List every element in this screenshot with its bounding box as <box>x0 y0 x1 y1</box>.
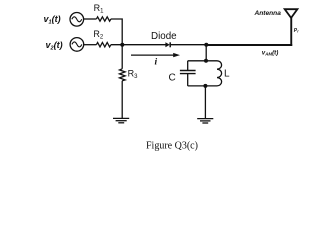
node D junction dot (tank bottom) <box>203 84 207 88</box>
wire node B down to tank top <box>205 45 207 61</box>
tank bottom wire <box>188 85 217 87</box>
antenna feed wire (node B to antenna) <box>205 44 292 46</box>
svg-text:v2(t): v2(t) <box>46 40 63 52</box>
tank top wire <box>188 60 217 62</box>
antenna mast (vertical) <box>290 17 292 47</box>
wire R1 to corner and down to node A <box>111 19 122 45</box>
svg-text:Figure Q3(c): Figure Q3(c) <box>146 140 198 151</box>
ground (right) <box>197 119 213 123</box>
resistor R2 <box>96 43 111 47</box>
svg-text:R3: R3 <box>128 69 139 81</box>
wire R2 to diode <box>111 44 166 46</box>
wire v1 to R1 <box>84 18 97 20</box>
source v1 (AC source circle) <box>70 12 84 26</box>
source v2 (AC source circle) <box>70 38 84 52</box>
wire v2 to R2 <box>84 44 97 46</box>
resistor R3 (vertical) <box>120 69 126 81</box>
antenna symbol <box>285 9 298 18</box>
wire node A down to R3 <box>121 45 123 69</box>
svg-text:v1(t): v1(t) <box>44 14 61 26</box>
svg-text:Pr: Pr <box>294 28 300 34</box>
wire R3 down to ground <box>121 81 123 119</box>
resistor R1 <box>96 17 111 21</box>
inductor L <box>217 61 222 86</box>
svg-text:R2: R2 <box>93 29 104 41</box>
ground (left) <box>113 118 129 122</box>
wire tank bottom to ground <box>204 86 206 119</box>
svg-text:i: i <box>155 57 158 67</box>
svg-text:Diode: Diode <box>151 31 177 42</box>
node B junction dot <box>204 43 208 47</box>
wire diode to node B <box>171 44 207 46</box>
svg-text:L: L <box>224 68 230 79</box>
node A junction dot <box>120 43 124 47</box>
svg-text:vAM(t): vAM(t) <box>262 50 278 57</box>
diode D1 <box>165 42 170 47</box>
svg-text:R1: R1 <box>94 3 105 15</box>
current arrow i <box>131 53 180 57</box>
svg-text:C: C <box>169 72 176 83</box>
svg-text:Antenna: Antenna <box>254 10 282 17</box>
node C junction dot (tank top) <box>204 59 208 63</box>
capacitor C <box>180 61 196 86</box>
